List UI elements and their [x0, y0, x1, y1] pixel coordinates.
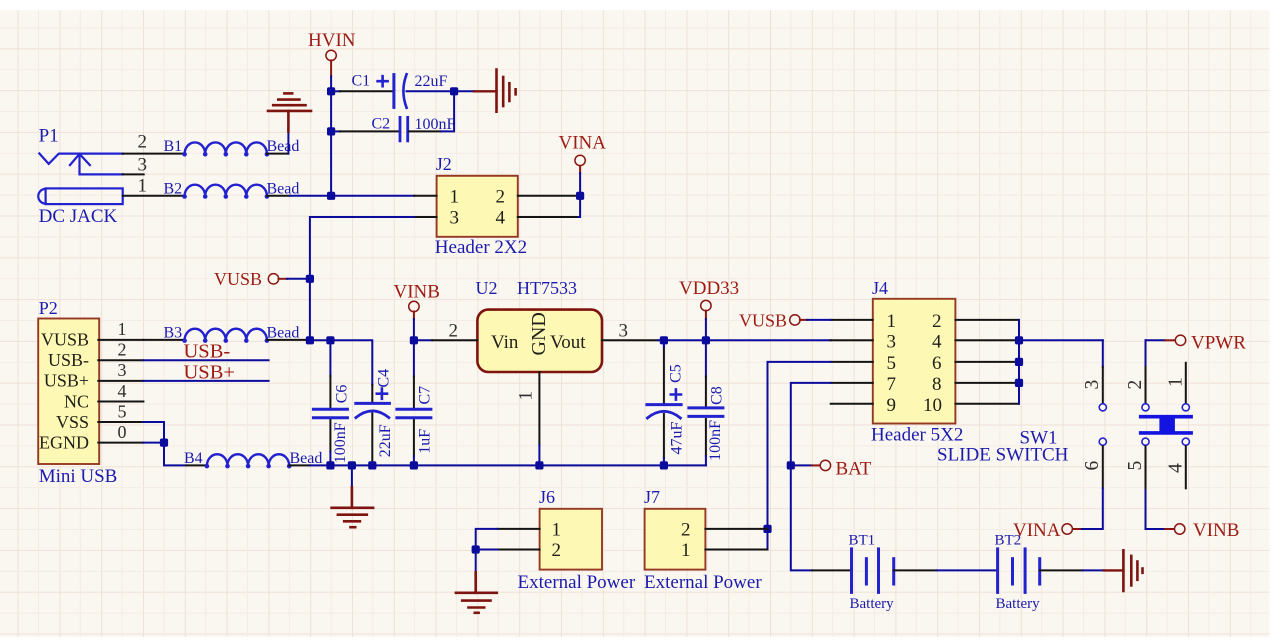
svg-text:VDD33: VDD33 — [679, 278, 739, 299]
wire HVIN vertical — [330, 76, 332, 195]
P2 pin 4 — [98, 381, 143, 402]
power port VINA (bottom) — [1013, 520, 1080, 541]
junction HVIN/C1 — [327, 87, 335, 95]
svg-text:C4: C4 — [376, 369, 393, 388]
svg-text:1uF: 1uF — [416, 429, 433, 454]
svg-text:22uF: 22uF — [415, 73, 448, 90]
header J6 box — [518, 487, 636, 593]
ferrite bead B2 — [164, 181, 300, 199]
junction lineB / BAT — [787, 461, 795, 469]
power port VDD33 — [679, 278, 739, 340]
P2 pin 5 — [98, 401, 143, 422]
junction C6 bottom — [326, 461, 334, 469]
svg-text:DC JACK: DC JACK — [39, 206, 118, 227]
junction VUSB — [306, 275, 314, 283]
wire to power ground PGND1 — [454, 90, 496, 92]
power ground PGND2 (bars) — [1123, 550, 1142, 591]
svg-text:5: 5 — [1125, 461, 1146, 471]
svg-text:4: 4 — [118, 381, 127, 401]
switch SW1 pin 2 — [1125, 340, 1149, 411]
power port VINB (bottom) — [1165, 520, 1239, 541]
capacitor C2 100nF — [340, 115, 456, 141]
switch label SW1 — [937, 428, 1069, 466]
power ground PGND1 (bars) — [497, 70, 516, 112]
svg-text:2: 2 — [681, 519, 691, 540]
svg-text:2: 2 — [552, 540, 562, 561]
J4 pin 6 stub — [955, 361, 1019, 363]
wire HVIN to C1 — [331, 90, 340, 92]
svg-text:HT7533: HT7533 — [517, 278, 577, 298]
J4 pin 10 stub — [955, 403, 1019, 405]
svg-text:Battery: Battery — [996, 596, 1041, 612]
ground GND1 (inverted earth, top) — [268, 93, 311, 153]
wire VUSB port to vertical — [287, 278, 310, 280]
J6 pin 2 — [497, 540, 561, 561]
battery BT2 — [995, 533, 1083, 612]
wire bus to SW1 pin3 — [1019, 339, 1103, 341]
ground GND3 (below J6) — [456, 550, 497, 613]
svg-text:2: 2 — [449, 321, 459, 342]
switch SW1 pin 6 — [1080, 438, 1106, 529]
svg-text:3: 3 — [118, 360, 127, 380]
svg-text:GND: GND — [528, 312, 550, 355]
J4 pin 4 stub — [955, 339, 1019, 341]
ferrite bead B1 — [164, 138, 300, 156]
P1 pin 1 — [123, 175, 185, 196]
wire B2 to J2 pin1 (net HVIN) — [290, 195, 414, 197]
svg-text:B1: B1 — [164, 138, 183, 155]
svg-text:1: 1 — [118, 319, 127, 339]
junction U2 gnd — [535, 461, 543, 469]
svg-text:USB-: USB- — [48, 350, 89, 370]
svg-text:3: 3 — [450, 208, 460, 229]
P1 value label DC JACK — [39, 206, 118, 227]
svg-text:J6: J6 — [539, 487, 555, 507]
ground GND2 (below caps) — [332, 465, 374, 527]
svg-text:7: 7 — [887, 374, 897, 395]
svg-text:3: 3 — [1082, 380, 1103, 390]
wire VUSB vertical lower — [309, 279, 311, 341]
power port VUSB (left) — [214, 269, 287, 289]
junction C7 bottom — [410, 461, 418, 469]
wire U2 pin3 to J4 pin3 — [658, 339, 831, 341]
wire pin1 to bead B3 — [143, 339, 184, 341]
svg-text:USB-: USB- — [184, 341, 231, 363]
svg-text:C2: C2 — [372, 115, 391, 132]
wire C2 to C1 right joint — [441, 91, 454, 131]
capacitor C8 100nF — [689, 340, 726, 465]
switch SW1 pin 4 — [1166, 438, 1190, 488]
power port VINB (center) — [394, 282, 440, 341]
junction C5 top — [660, 336, 668, 344]
junction bus pin6 — [1015, 358, 1023, 366]
J6 pin 1 — [497, 519, 561, 540]
svg-text:Battery: Battery — [850, 596, 895, 612]
svg-text:SLIDE SWITCH: SLIDE SWITCH — [937, 445, 1069, 466]
regulator U2 HT7533 — [476, 278, 603, 372]
svg-text:4: 4 — [1166, 463, 1187, 473]
svg-text:C7: C7 — [416, 386, 433, 405]
wire BT1 to BT2 — [937, 569, 996, 571]
svg-text:100nF: 100nF — [707, 420, 724, 461]
svg-text:1: 1 — [516, 391, 537, 401]
U2 pin 3 — [602, 321, 658, 342]
J4 pin numbers left — [887, 311, 897, 416]
junction ground stem — [348, 461, 356, 469]
battery BT1 — [812, 533, 937, 612]
svg-text:P2: P2 — [39, 298, 58, 318]
svg-text:VUSB: VUSB — [41, 330, 89, 350]
B2 right pin lead — [267, 195, 290, 197]
svg-text:2: 2 — [118, 340, 127, 360]
switch SW1 actuator — [1141, 415, 1191, 435]
svg-text:1: 1 — [887, 311, 897, 332]
svg-text:10: 10 — [923, 395, 942, 416]
junction B3/VUSB vertical — [306, 336, 314, 344]
J2 pin 4 — [496, 208, 579, 229]
svg-text:External Power: External Power — [518, 572, 636, 593]
switch SW1 pin 5 — [1125, 438, 1165, 529]
J7 pin 1 — [681, 540, 768, 561]
J4 pin 5 stub — [831, 361, 873, 363]
U2 pin 1 (GND) — [516, 372, 540, 465]
B1 pin lead to ground — [267, 153, 288, 155]
header J7 box — [644, 487, 762, 593]
svg-text:C5: C5 — [668, 364, 685, 383]
power port VPWR — [1146, 333, 1247, 354]
power port HVIN — [308, 30, 356, 76]
svg-text:5: 5 — [118, 401, 127, 421]
svg-text:VINB: VINB — [1193, 520, 1239, 541]
svg-text:4: 4 — [932, 332, 942, 353]
P2 pin 1 — [98, 319, 143, 340]
junction J6 pin2 — [472, 545, 480, 553]
wire VINA vertical / pins 2-4 tie — [579, 165, 581, 217]
capacitor C5 47uF (polarized) — [647, 340, 686, 465]
svg-text:J7: J7 — [644, 487, 660, 507]
capacitor C4 22uF (polarized) — [356, 369, 394, 466]
net label USB- wire — [143, 341, 268, 363]
wire EGND row — [143, 443, 186, 466]
svg-text:Header 2X2: Header 2X2 — [435, 237, 527, 258]
J4 pin 3 stub — [831, 339, 873, 341]
B3 right pin lead — [267, 339, 310, 341]
wire J2 pin3 to VUSB vertical — [310, 217, 414, 279]
net label USB+ wire — [143, 361, 268, 383]
svg-text:Vin: Vin — [491, 332, 519, 353]
svg-text:0: 0 — [118, 422, 127, 442]
junction C4 bottom — [368, 461, 376, 469]
junction VINB/C7 — [410, 336, 418, 344]
svg-text:VINB: VINB — [394, 282, 440, 303]
wire C2 row from HVIN — [331, 130, 340, 132]
svg-text:J2: J2 — [436, 154, 452, 174]
connector P1 designator — [39, 126, 59, 147]
svg-text:B3: B3 — [164, 324, 183, 341]
svg-text:Mini USB: Mini USB — [39, 466, 118, 487]
power port BAT — [791, 458, 872, 479]
connector P1 DC jack symbol — [38, 153, 122, 204]
junction B2/HVIN — [327, 192, 335, 200]
junction C8/VDD33 — [702, 336, 710, 344]
wire B4 to ground bus — [310, 464, 331, 466]
svg-text:USB+: USB+ — [44, 371, 89, 391]
switch SW1 pin 1 — [1166, 363, 1190, 411]
svg-text:2: 2 — [138, 132, 148, 153]
svg-text:B4: B4 — [184, 450, 203, 467]
svg-text:EGND: EGND — [39, 432, 89, 452]
svg-text:1: 1 — [552, 519, 562, 540]
svg-text:USB+: USB+ — [184, 361, 235, 383]
P2 pin 3 — [98, 360, 143, 381]
svg-text:VUSB: VUSB — [214, 269, 262, 289]
svg-text:1: 1 — [681, 540, 691, 561]
wire J4 pin7 down (line B) — [791, 383, 831, 571]
junction bus pin4 — [1015, 336, 1023, 344]
wire VINB to U2 pin2 — [414, 339, 432, 341]
svg-text:2: 2 — [1125, 380, 1146, 390]
svg-text:100nF: 100nF — [332, 422, 349, 463]
J4 pin 8 stub — [955, 382, 1019, 384]
svg-text:VINA: VINA — [1013, 520, 1061, 541]
svg-text:BT1: BT1 — [849, 533, 876, 549]
junction lineA / J7 pin2 — [763, 525, 771, 533]
wire J4 right bus — [1018, 320, 1020, 404]
switch SW1 pin 3 — [1082, 340, 1106, 411]
power port VINA (top) — [559, 133, 607, 166]
svg-text:5: 5 — [887, 353, 897, 374]
svg-text:3: 3 — [619, 321, 629, 342]
svg-text:C8: C8 — [709, 386, 726, 405]
J2 pin 3 — [414, 208, 459, 229]
svg-text:BAT: BAT — [836, 458, 872, 479]
svg-text:Bead: Bead — [267, 324, 300, 341]
P2 pin names — [39, 330, 89, 453]
wire VSS jog — [143, 422, 164, 443]
svg-text:3: 3 — [887, 332, 897, 353]
U2 pin 2 — [432, 321, 477, 342]
svg-text:22uF: 22uF — [377, 424, 394, 457]
svg-text:1: 1 — [138, 175, 148, 196]
junction C5 bottom — [660, 461, 668, 469]
svg-text:External Power: External Power — [644, 572, 762, 593]
connector P2 box (Mini USB) — [38, 298, 117, 487]
svg-text:6: 6 — [932, 353, 942, 374]
svg-text:4: 4 — [496, 208, 506, 229]
P1 pin 2 — [123, 132, 185, 154]
svg-text:2: 2 — [496, 186, 506, 207]
header J4 box — [871, 278, 963, 446]
junction bus pin8 — [1015, 379, 1023, 387]
svg-text:2: 2 — [932, 311, 942, 332]
J4 pin 2 stub — [955, 319, 1019, 321]
svg-text:8: 8 — [932, 374, 942, 395]
junction VSS/EGND — [160, 439, 168, 447]
svg-text:47uF: 47uF — [669, 422, 686, 455]
svg-text:HVIN: HVIN — [308, 30, 356, 51]
J2 pin 2 — [496, 186, 579, 207]
svg-text:Vout: Vout — [550, 332, 586, 353]
junction C1/C2 right — [450, 87, 458, 95]
capacitor C7 1uF — [397, 340, 433, 465]
svg-text:P1: P1 — [39, 126, 59, 147]
ferrite bead B3 — [164, 324, 300, 343]
svg-text:3: 3 — [138, 154, 148, 175]
J4 pin 7 stub — [831, 382, 873, 384]
J7 pin 2 — [681, 519, 768, 540]
svg-text:9: 9 — [887, 395, 897, 416]
junction HVIN/C2 — [327, 127, 335, 135]
ground bus wire — [330, 464, 706, 466]
capacitor C1 22uF — [340, 72, 454, 108]
ferrite bead B4 — [184, 450, 322, 468]
J2 pin 1 — [414, 186, 459, 207]
svg-text:VUSB: VUSB — [739, 311, 787, 331]
P1 pin 3 — [123, 154, 147, 175]
J4 pin numbers right — [923, 311, 942, 416]
wire VUSB row to C4 — [310, 340, 372, 385]
J4 pin 9 stub — [831, 403, 873, 405]
power port VUSB (at J4) — [739, 311, 831, 331]
svg-text:J4: J4 — [872, 278, 888, 298]
wire J4 pin5 down (line A) — [705, 362, 830, 550]
wire J6 pins joint — [476, 529, 498, 550]
svg-text:1: 1 — [1166, 377, 1187, 387]
P2 pin 2 — [98, 340, 143, 361]
svg-text:1: 1 — [450, 186, 460, 207]
P2 pin 0 — [98, 422, 143, 443]
svg-text:U2: U2 — [476, 278, 498, 298]
svg-text:VINA: VINA — [559, 133, 607, 154]
header J2 box — [435, 154, 527, 258]
wire BT2 to power ground — [1083, 569, 1124, 571]
junction VINA pin2 — [576, 192, 584, 200]
capacitor C6 100nF — [313, 340, 350, 465]
svg-text:Header 5X2: Header 5X2 — [871, 425, 963, 446]
svg-text:C1: C1 — [352, 72, 371, 89]
svg-text:C6: C6 — [333, 385, 350, 404]
J4 pin 1 stub — [831, 319, 873, 321]
svg-text:VPWR: VPWR — [1191, 333, 1246, 354]
svg-text:6: 6 — [1082, 461, 1103, 471]
svg-text:NC: NC — [64, 391, 89, 411]
junction C6 top — [326, 336, 334, 344]
svg-text:VSS: VSS — [56, 412, 89, 432]
svg-text:B2: B2 — [164, 181, 183, 198]
